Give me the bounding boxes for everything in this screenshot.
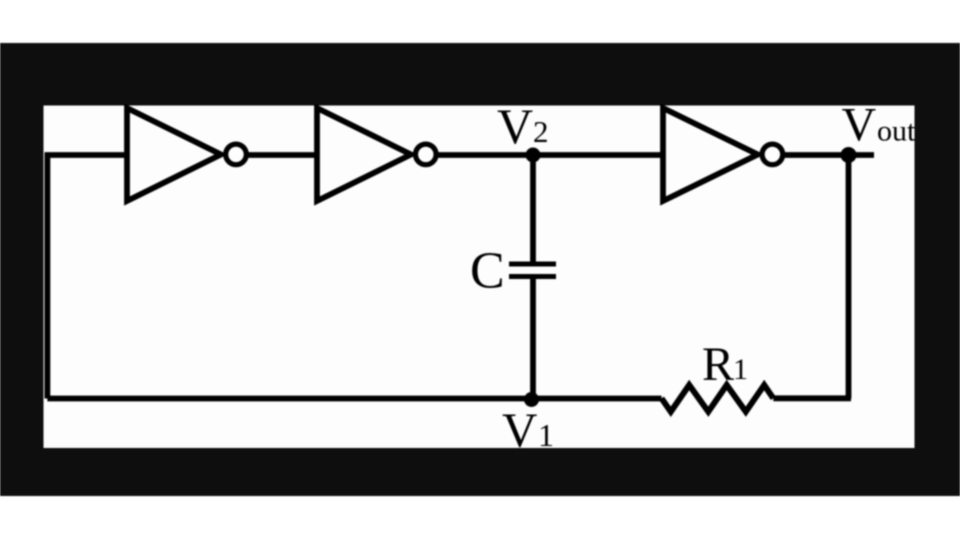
svg-text:R: R	[702, 338, 734, 391]
svg-text:out: out	[877, 115, 916, 148]
svg-text:1: 1	[538, 417, 554, 453]
svg-text:2: 2	[533, 114, 549, 149]
svg-text:1: 1	[733, 353, 748, 386]
svg-text:V: V	[842, 99, 877, 152]
svg-text:V: V	[502, 403, 537, 458]
svg-text:C: C	[470, 243, 505, 300]
svg-text:V: V	[497, 98, 533, 154]
